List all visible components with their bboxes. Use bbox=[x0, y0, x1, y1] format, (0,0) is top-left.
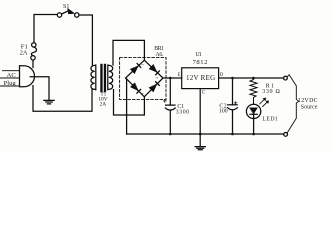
transformer T1 secondary coil bbox=[108, 65, 113, 90]
svg-text:3300: 3300 bbox=[176, 110, 189, 116]
transformer core bbox=[100, 64, 106, 92]
svg-text:2A: 2A bbox=[100, 102, 107, 108]
svg-text:+: + bbox=[156, 77, 159, 82]
bridge diamond bbox=[126, 60, 163, 97]
wire secondary bottom to bridge bottom vertex bbox=[114, 90, 145, 115]
label C2 100 bbox=[219, 103, 228, 114]
bridge rectifier BR1 dashed box bbox=[120, 57, 166, 99]
wire plug bottom rail to primary bbox=[33, 86, 92, 112]
svg-text:~: ~ bbox=[141, 62, 144, 68]
node common/rail bbox=[199, 133, 202, 136]
wire bridge minus to ground rail bbox=[125, 78, 128, 134]
AC plug bbox=[20, 66, 35, 87]
node C1 top bbox=[169, 77, 172, 80]
switch S1 bbox=[57, 8, 79, 17]
plus mark right bbox=[156, 77, 159, 82]
wire fuse to switch bbox=[34, 15, 57, 43]
label T1 18V 2A bbox=[98, 92, 107, 108]
svg-text:100: 100 bbox=[219, 108, 228, 114]
wire switch to transformer primary bbox=[79, 15, 92, 65]
label LED1 bbox=[262, 116, 278, 122]
pin label C bbox=[202, 90, 206, 96]
capacitor C1 bbox=[163, 78, 175, 134]
LED1 bbox=[246, 98, 268, 119]
svg-text:LED1: LED1 bbox=[262, 116, 278, 122]
svg-text:7812: 7812 bbox=[193, 59, 208, 66]
svg-text:C: C bbox=[202, 90, 206, 96]
label BR1 A6 bbox=[154, 46, 164, 58]
diode D4 (bottom-right arm) bbox=[149, 82, 159, 92]
svg-text:330 Ω: 330 Ω bbox=[262, 89, 280, 95]
label 12V REG bbox=[186, 74, 215, 82]
connector bracket bbox=[287, 75, 299, 133]
label AC Plug bbox=[4, 72, 17, 87]
svg-text:~: ~ bbox=[141, 91, 144, 97]
label rules bbox=[1, 71, 20, 86]
ac mark top bbox=[141, 62, 144, 68]
transformer T1 primary coil bbox=[91, 65, 96, 90]
label C1 3300 bbox=[176, 104, 189, 116]
output terminal + bbox=[284, 76, 288, 80]
svg-text:A6.: A6. bbox=[156, 52, 165, 58]
ground rail bbox=[127, 133, 284, 135]
wire secondary top to bridge bbox=[113, 40, 144, 65]
diode D3 (left-bottom arm) bbox=[130, 83, 140, 93]
label S1 bbox=[63, 4, 69, 10]
label R1 330ohm bbox=[262, 84, 280, 95]
capacitor C2 bbox=[228, 78, 238, 134]
wire LED to rail bbox=[253, 119, 255, 134]
svg-text:D: D bbox=[220, 73, 224, 78]
svg-text:Source: Source bbox=[301, 105, 318, 111]
svg-text:12V REG: 12V REG bbox=[186, 74, 215, 82]
wire bridge plus to regulator bbox=[163, 77, 182, 79]
wire regulator output rail bbox=[219, 77, 284, 79]
svg-text:U1: U1 bbox=[196, 52, 202, 58]
ground (AC side) bbox=[44, 100, 54, 104]
node C2 bottom bbox=[231, 133, 234, 136]
diode D1 (left-top arm) bbox=[130, 64, 140, 74]
ground (DC side) bbox=[195, 147, 205, 150]
op-amp U1 regulator box bbox=[182, 68, 219, 89]
svg-text:S1: S1 bbox=[63, 4, 69, 10]
node C1 bottom bbox=[169, 133, 172, 136]
fuse F1 bbox=[31, 43, 37, 60]
pin label I bbox=[178, 73, 181, 78]
node LED bottom bbox=[252, 133, 255, 136]
pin label O bbox=[220, 73, 224, 78]
node R1 top bbox=[252, 77, 255, 80]
wire regulator common to ground bbox=[199, 89, 201, 147]
svg-text:2A: 2A bbox=[20, 50, 28, 57]
svg-text:12VDC: 12VDC bbox=[298, 98, 318, 104]
svg-text:E: E bbox=[178, 73, 181, 78]
output terminal - bbox=[284, 133, 288, 137]
resistor R1 bbox=[250, 78, 257, 104]
ac mark bottom bbox=[141, 91, 144, 97]
label F1 2A bbox=[20, 43, 28, 56]
wire plug top to fuse bbox=[32, 60, 34, 67]
node C2 top bbox=[231, 77, 234, 80]
label U1 7812 bbox=[193, 52, 208, 66]
wire plug middle to ground bbox=[30, 77, 49, 101]
diode D2 (top-right arm) bbox=[149, 65, 159, 75]
label 12VDC Source bbox=[298, 98, 318, 111]
